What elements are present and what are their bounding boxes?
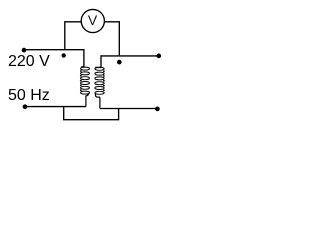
wire voltmeter right lead: [104, 22, 119, 55]
wire top-left rail from 220V source: [24, 49, 84, 51]
node secondary-voltmeter junction: [117, 60, 122, 65]
wire secondary top lead with foot: [95, 55, 101, 67]
node output top terminal: [156, 54, 161, 59]
wire secondary bottom lead: [95, 94, 100, 109]
label 50 Hz: [8, 87, 50, 105]
inductor L1 crossover knots: [80, 70, 82, 91]
wire bottom-left rail to 50Hz source: [25, 106, 86, 108]
label 220 V: [8, 53, 50, 71]
node output bottom terminal: [155, 107, 160, 112]
voltmeter U1 circle: [81, 9, 104, 32]
wire common cross-connect: [64, 107, 119, 120]
inductor L2 secondary winding: [95, 67, 104, 94]
node source bottom terminal: [23, 104, 28, 109]
wire top-right rail to output: [101, 55, 159, 57]
wire voltmeter left lead: [65, 22, 81, 49]
node primary-voltmeter junction: [62, 53, 66, 57]
inductor L2 crossover knots: [103, 70, 105, 91]
wire primary bottom lead: [86, 93, 89, 106]
node source top terminal: [22, 48, 27, 53]
svg-text:V: V: [88, 12, 98, 28]
inductor L1 primary winding: [81, 67, 90, 94]
wire primary top lead with foot: [81, 49, 84, 67]
wire bottom-right rail to output: [100, 108, 157, 110]
